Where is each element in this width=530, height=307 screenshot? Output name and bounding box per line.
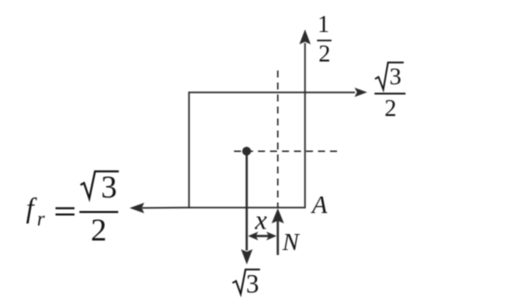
svg-text:A: A (310, 192, 328, 219)
arrowhead right (sqrt3/2 force) (355, 88, 368, 97)
double arrow x offset (251, 235, 273, 237)
svg-text:2: 2 (91, 211, 107, 247)
svg-text:2: 2 (319, 42, 331, 68)
svg-text:3: 3 (389, 64, 401, 90)
square block (189, 92, 305, 207)
wire horizontal right from top edge (305, 91, 355, 93)
svg-text:r: r (37, 209, 45, 231)
svg-text:f: f (26, 194, 37, 225)
arrowhead up (1/2 force) (299, 29, 310, 44)
normal force N arrow up (277, 221, 279, 255)
wire vertical axis up from square right edge (304, 43, 306, 92)
label sqrt(3)/2 right (375, 63, 406, 123)
arrowhead left (friction force) (130, 203, 145, 213)
label 1/2 (317, 12, 332, 68)
dashed vertical reference line (277, 71, 279, 208)
wire horizontal left from bottom edge (142, 207, 189, 209)
center of mass dot (242, 147, 251, 156)
arrowhead down (weight sqrt3) (241, 249, 253, 264)
label f_r = sqrt(3)/2 (26, 169, 119, 248)
arrowhead up (N) (272, 208, 284, 223)
svg-text:2: 2 (385, 96, 397, 122)
svg-text:3: 3 (101, 169, 117, 205)
svg-text:1: 1 (318, 12, 330, 38)
label sqrt(3) bottom (233, 270, 261, 299)
dashed horizontal reference line (234, 150, 337, 152)
wire weight force down (246, 151, 248, 250)
svg-text:x: x (254, 205, 267, 235)
svg-text:3: 3 (246, 270, 259, 299)
svg-text:N: N (282, 229, 301, 256)
